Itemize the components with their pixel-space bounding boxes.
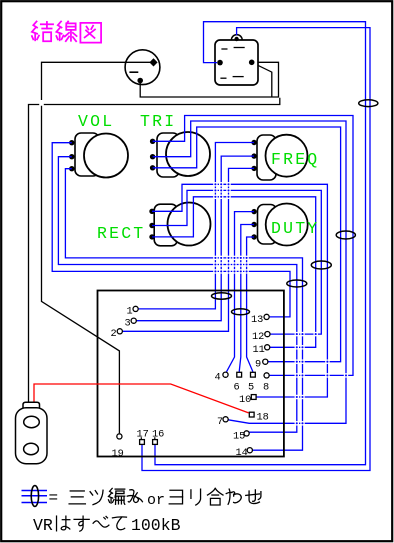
svg-text:9: 9	[255, 359, 261, 371]
title "結線図" (wiring diagram)	[32, 21, 101, 42]
braid marker E1	[359, 100, 378, 107]
svg-text:12: 12	[252, 331, 264, 343]
svg-text:100kB: 100kB	[131, 516, 181, 535]
wire RECT-top to pin 10 (blue)	[152, 184, 327, 397]
pin 5	[248, 372, 255, 393]
wire pin17 to SW1-top (blue)	[142, 28, 370, 471]
label FREQ	[271, 150, 319, 169]
svg-text:18: 18	[257, 412, 269, 424]
pin 9	[255, 359, 268, 371]
braid marker E7	[232, 309, 250, 315]
wire SW1-right junction to jack J1 (black)	[29, 98, 280, 402]
potentiometer DUTY	[251, 204, 307, 246]
svg-text:4: 4	[215, 372, 221, 384]
wire VOL-bottom to pin 14 (blue)	[65, 169, 302, 451]
wire FREQ-bottom to pin 2 (blue)	[122, 168, 254, 331]
braid marker E3	[311, 261, 331, 269]
svg-text:or: or	[147, 492, 165, 509]
pin 11	[253, 344, 270, 356]
pin 16	[152, 429, 164, 445]
pin 18	[249, 412, 269, 424]
braid marker E5	[287, 280, 307, 287]
switch SW1	[215, 35, 258, 85]
svg-text:11: 11	[253, 344, 265, 356]
svg-text:1: 1	[127, 306, 133, 318]
wire crossing breaks	[39, 100, 348, 425]
wire TRI-bottom to pin 9 (blue)	[153, 127, 341, 362]
wire TRI-mid to pin 7 (blue)	[153, 121, 346, 423]
braid marker E6	[212, 293, 232, 299]
svg-text:2: 2	[111, 328, 117, 340]
pin 12	[252, 331, 270, 343]
svg-text:VOL: VOL	[78, 112, 114, 131]
svg-text:8: 8	[263, 382, 269, 394]
PCB board outline	[98, 291, 284, 457]
wire DUTY-mid to pin 6 (blue)	[239, 225, 254, 372]
svg-text:TRI: TRI	[140, 112, 176, 131]
wire RECT-bottom to pin 11 (blue)	[152, 197, 316, 347]
wire TRI-top to pin 8 (blue)	[153, 116, 353, 376]
svg-text:VR: VR	[33, 516, 53, 535]
pin 6	[234, 372, 242, 393]
label DUTY	[271, 219, 319, 238]
wire P1-left to pin 19 (black)	[42, 62, 151, 433]
pin 8	[263, 373, 269, 394]
svg-text:DUTY: DUTY	[271, 219, 319, 238]
pin 13	[251, 314, 269, 326]
connector P1 (plug, rear view)	[125, 50, 160, 85]
wire VOL-mid to pin 15 (blue)	[58, 157, 296, 433]
wire pin16 to SW1-left (blue)	[155, 22, 366, 465]
wire FREQ-top to pin 1 (blue)	[138, 143, 254, 309]
svg-text:19: 19	[112, 448, 124, 460]
legend text "=三ツ編みorヨリ合わせ"	[49, 488, 261, 509]
potentiometer FREQ	[251, 135, 307, 180]
svg-text:13: 13	[251, 314, 263, 326]
pin 10	[239, 394, 256, 406]
wire P1-bottom to SW1-right (black)	[140, 62, 278, 97]
svg-text:16: 16	[152, 429, 164, 441]
pin 14	[236, 447, 253, 459]
braid marker E2	[336, 231, 355, 239]
potentiometer VOL	[69, 112, 128, 178]
wire jack J1 to pin 18 (red)	[34, 384, 249, 413]
svg-text:FREQ: FREQ	[271, 150, 319, 169]
svg-text:7: 7	[217, 416, 223, 428]
svg-text:10: 10	[239, 394, 251, 406]
jack J1 (rear view)	[16, 402, 48, 464]
wire RECT-mid to pin 12 (blue)	[152, 190, 321, 334]
svg-text:3: 3	[125, 318, 131, 330]
pin 19	[112, 434, 124, 460]
pin 7	[217, 416, 228, 428]
pin 4	[215, 372, 229, 384]
potentiometer RECT	[97, 203, 211, 246]
pin 1	[127, 306, 139, 318]
potentiometer TRI	[140, 112, 210, 177]
svg-text:=: =	[49, 489, 59, 507]
svg-text:14: 14	[236, 447, 248, 459]
wire FREQ-mid to pin 3 (blue)	[136, 156, 254, 321]
legend braid symbol	[22, 486, 48, 507]
svg-text:5: 5	[248, 382, 254, 394]
pin 2	[111, 328, 123, 340]
pin 17	[137, 429, 149, 445]
svg-text:15: 15	[233, 431, 245, 443]
svg-text:6: 6	[234, 382, 240, 394]
wire DUTY-top to pin 4 (blue)	[227, 212, 255, 372]
pin 15	[233, 431, 249, 443]
svg-text:RECT: RECT	[97, 224, 145, 243]
wire DUTY-bottom to pin 5 (blue)	[247, 237, 255, 372]
svg-text:17: 17	[137, 429, 149, 441]
pin 3	[125, 318, 137, 330]
wire VOL-top to pin 13 (blue)	[52, 143, 290, 317]
legend text "VRはすべて100kB"	[33, 516, 181, 535]
